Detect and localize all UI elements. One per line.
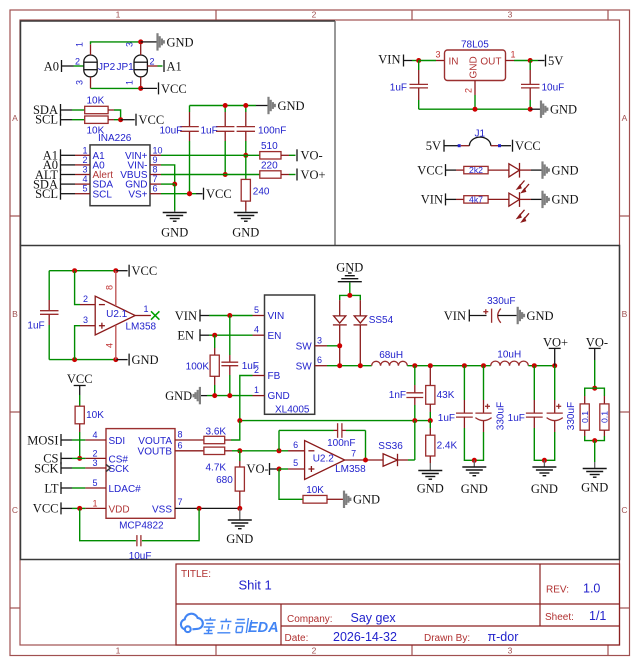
frame row tick right 1 bbox=[620, 215, 630, 217]
svg-text:2: 2 bbox=[254, 365, 259, 375]
wire to GND flag top bbox=[141, 41, 157, 43]
svg-text:4: 4 bbox=[105, 343, 115, 348]
svg-text:1uF: 1uF bbox=[27, 320, 44, 331]
LED1 cathode bar bbox=[519, 163, 521, 178]
title block vertical separator logo/company bbox=[280, 604, 282, 645]
junction pullups to VCC bbox=[118, 117, 123, 122]
ground flag GND decoupling bbox=[269, 97, 275, 114]
ground flag GND gain bbox=[344, 491, 350, 508]
svg-text:GND: GND bbox=[268, 391, 290, 402]
svg-text:VS+: VS+ bbox=[128, 189, 147, 200]
C3 bottom stub bbox=[48, 314, 50, 325]
svg-text:MOSI: MOSI bbox=[27, 433, 58, 447]
diode D2 SS54 right anode wire bbox=[359, 300, 361, 316]
junction 100K GND bbox=[212, 393, 217, 398]
svg-text:VO-: VO- bbox=[301, 149, 323, 163]
svg-text:VIN: VIN bbox=[421, 193, 443, 207]
capacitor C 330uF out1 top stub bbox=[483, 366, 485, 400]
svg-text:240: 240 bbox=[253, 186, 270, 197]
junction out2 gnd bbox=[542, 458, 547, 463]
earth ground below shunt bbox=[594, 462, 596, 468]
svg-text:680: 680 bbox=[216, 475, 233, 486]
svg-text:5: 5 bbox=[254, 305, 259, 315]
wire J1 to VCC bbox=[501, 145, 511, 147]
svg-text:J1: J1 bbox=[475, 128, 486, 139]
C 330uF out2 plus sign bbox=[556, 404, 561, 409]
svg-text:9: 9 bbox=[153, 155, 158, 165]
resistor R 10K gain bbox=[303, 495, 327, 503]
junction VS+ VCC bbox=[187, 191, 192, 196]
C1 bottom stub bbox=[418, 88, 420, 100]
bypass capacitor C 10uF wires bbox=[80, 508, 136, 540]
svg-text:SCL: SCL bbox=[35, 113, 58, 127]
svg-text:0.1: 0.1 bbox=[580, 411, 590, 423]
U1 pin 7 stub bbox=[150, 183, 161, 185]
jumper J1 arc bbox=[461, 145, 470, 147]
svg-text:VIN: VIN bbox=[444, 309, 466, 323]
title block outline bbox=[176, 564, 620, 645]
svg-text:7: 7 bbox=[351, 448, 356, 458]
wire JP2 pin3 to VCC net bottom bbox=[91, 87, 141, 89]
capacitor C 1uF out2 plates bbox=[526, 413, 543, 417]
U2.1 plus sign bbox=[99, 323, 105, 329]
JP2 pin3 stub bbox=[90, 77, 92, 89]
capacitor C 1uF out2 top stub bbox=[533, 366, 535, 400]
U3 pin 1 wire to 5V bbox=[506, 60, 515, 62]
lead to GND flag U2.1 bbox=[116, 359, 128, 361]
frame row tick left 3 bbox=[10, 607, 20, 609]
lead to VCC flag U2.1 bbox=[116, 270, 128, 272]
junction 330uF out1 bbox=[481, 363, 486, 368]
ground flag GND regulator bbox=[541, 101, 547, 118]
resistor R 10K pullup CS bbox=[75, 406, 84, 424]
capacitor C1 1uF plates bbox=[410, 84, 429, 88]
LED2 emission arrows bbox=[517, 210, 529, 222]
svg-text:EN: EN bbox=[268, 331, 282, 342]
earth ground below 2.4K bbox=[429, 463, 431, 470]
junction shunt top bbox=[592, 386, 597, 391]
junction 1nF FB bbox=[412, 418, 417, 423]
C2 bottom stub bbox=[529, 88, 531, 100]
frame row tick left 2 bbox=[10, 411, 20, 413]
wire VIN to 78L05 pin3 bbox=[404, 60, 413, 62]
svg-text:SW: SW bbox=[296, 361, 313, 372]
C 330uF bulk plus sign bbox=[483, 309, 488, 314]
jumper JP1 bbox=[134, 55, 147, 77]
svg-text:5V: 5V bbox=[426, 139, 441, 153]
title block line under company row bbox=[281, 625, 620, 627]
junction 1uF GND bbox=[227, 393, 232, 398]
no-connect X on U2.1 output bbox=[151, 311, 159, 319]
resistor R 2k2 bbox=[464, 166, 488, 173]
svg-text:1/1: 1/1 bbox=[589, 609, 606, 623]
svg-text:1: 1 bbox=[254, 385, 259, 395]
section box 1 (INA226 area) top and left edges bbox=[21, 21, 336, 246]
svg-text:JP2: JP2 bbox=[98, 62, 116, 73]
diode D2 SS54 triangle bbox=[354, 316, 366, 323]
wire 10K down to CS net bbox=[79, 424, 81, 432]
svg-text:GND: GND bbox=[161, 226, 188, 240]
svg-text:VCC: VCC bbox=[33, 502, 59, 516]
svg-text:330uF: 330uF bbox=[566, 402, 577, 430]
capacitor C 1uF plates bbox=[216, 127, 234, 132]
C 1uF out2 bottom stub bbox=[533, 417, 535, 428]
svg-text:330uF: 330uF bbox=[487, 296, 515, 307]
svg-text:π-dor: π-dor bbox=[488, 630, 519, 644]
earth ground below 680 bbox=[239, 508, 241, 519]
capacitor C 1uF en plates bbox=[221, 362, 238, 366]
capacitor C 1nF top stub bbox=[414, 366, 416, 385]
resistor R 0.1 right body bbox=[600, 404, 609, 430]
svg-text:78L05: 78L05 bbox=[461, 40, 489, 51]
svg-text:330uF: 330uF bbox=[496, 402, 507, 430]
svg-text:Date:: Date: bbox=[285, 633, 309, 644]
wire 220 to VO+ flag bbox=[281, 174, 289, 176]
LED LED2 triangle bbox=[509, 193, 520, 206]
lead to GND tag bbox=[256, 105, 268, 107]
svg-text:JP1: JP1 bbox=[117, 62, 135, 73]
wire pin7 to GND column bbox=[161, 183, 175, 185]
capacitor C 100nF plates bbox=[237, 127, 255, 132]
junction VIN 1uF bbox=[227, 313, 232, 318]
wire JP1 pin2 to A1 bbox=[147, 65, 157, 67]
svg-text:VCC: VCC bbox=[67, 372, 93, 386]
svg-text:8: 8 bbox=[153, 165, 158, 175]
junction 680 VOUTB bbox=[237, 448, 242, 453]
wire top of decoupling caps to GND bbox=[190, 105, 257, 107]
svg-text:OUT: OUT bbox=[480, 56, 501, 67]
junction bottom pin4 bbox=[113, 357, 118, 362]
C 330uF out2 bottom stub bbox=[554, 421, 556, 432]
resistor R 2.4K top stub bbox=[429, 421, 431, 428]
diode D1 SS54 triangle bbox=[334, 316, 346, 323]
svg-text:C: C bbox=[12, 505, 18, 515]
junction VDD bypass bbox=[77, 506, 82, 511]
svg-text:6: 6 bbox=[153, 184, 158, 194]
resistor R4 10K (SCL pullup) bbox=[85, 116, 108, 123]
wire LED1 to GND bbox=[520, 169, 532, 171]
wire VO- flag down to shunt bbox=[594, 348, 596, 360]
U2.2 minus sign bbox=[308, 450, 314, 452]
svg-text:GND: GND bbox=[469, 56, 480, 78]
junction 43K FB bbox=[428, 418, 433, 423]
svg-text:10K: 10K bbox=[86, 410, 104, 421]
svg-text:1: 1 bbox=[75, 42, 85, 47]
wire GND column down bbox=[174, 184, 176, 210]
resistor R 2.4K body bbox=[426, 435, 435, 456]
svg-text:GND: GND bbox=[165, 389, 192, 403]
wire A0 to JP2 pin2 bbox=[62, 65, 74, 67]
junction VSS bypass bbox=[197, 506, 202, 511]
svg-text:6: 6 bbox=[317, 355, 322, 365]
svg-text:43K: 43K bbox=[437, 390, 455, 401]
wire VIN- pin9 down to GND column bbox=[161, 165, 175, 184]
capacitor C 1uF top stub bbox=[224, 106, 226, 113]
wire VOUTB to U2.2 pin6 bbox=[240, 450, 288, 452]
svg-text:5: 5 bbox=[293, 458, 298, 468]
svg-text:FB: FB bbox=[268, 371, 281, 382]
lead to GND flag XL4005 bbox=[201, 395, 207, 397]
ground earth symbol right bbox=[245, 211, 247, 213]
U2.1 pin8 wire bbox=[115, 271, 117, 306]
junction VIN C1 bbox=[416, 58, 421, 63]
svg-text:2: 2 bbox=[312, 10, 317, 20]
wire SCL to R4 bbox=[61, 119, 73, 121]
U2.1 pin4 wire bbox=[115, 325, 117, 359]
lead to GND tag regulator bbox=[530, 108, 540, 110]
svg-text:4: 4 bbox=[92, 430, 97, 440]
D2 cathode bar bbox=[354, 324, 368, 326]
svg-text:1: 1 bbox=[144, 304, 149, 314]
junction JP tops bbox=[138, 39, 143, 44]
svg-text:5: 5 bbox=[82, 184, 87, 194]
U4 GND pin1 wire bbox=[253, 395, 265, 397]
svg-text:GND: GND bbox=[278, 99, 305, 113]
R 100K bottom stub bbox=[214, 376, 216, 385]
wire to VCC flag bbox=[141, 87, 157, 89]
wire JP2 pin1 to GND net top bbox=[91, 42, 141, 44]
junction top pin2 column bbox=[72, 268, 77, 273]
capacitor C2 10uF stubs bbox=[529, 61, 531, 71]
svg-text:3: 3 bbox=[92, 458, 97, 468]
svg-text:3: 3 bbox=[83, 315, 88, 325]
svg-text:VIN: VIN bbox=[175, 309, 197, 323]
output wire after L2 bbox=[528, 365, 554, 367]
ground flag GND LED1 bbox=[543, 161, 549, 178]
svg-text:1uF: 1uF bbox=[508, 413, 525, 424]
svg-text:VSS: VSS bbox=[152, 504, 172, 515]
capacitor C 10uF bottom stub to VS+ net bbox=[189, 131, 191, 141]
svg-text:6: 6 bbox=[293, 440, 298, 450]
junction feedback output bbox=[363, 458, 368, 463]
resistor R 4k7 bbox=[464, 196, 488, 203]
svg-text:10K: 10K bbox=[306, 485, 324, 496]
svg-text:GND: GND bbox=[232, 226, 259, 240]
capacitor C 1uF en stub bbox=[229, 316, 231, 356]
wire VIN+ net pin10 to R 510 bbox=[161, 154, 260, 156]
svg-text:VCC: VCC bbox=[206, 187, 232, 201]
wire R4 right to junction bbox=[108, 119, 114, 121]
capacitor C 10uF bypass plates bbox=[137, 535, 141, 546]
capacitor C 100nF fb plates bbox=[338, 423, 342, 438]
U2.1 supply bottom wire bbox=[49, 359, 116, 361]
lead to VCC flag bbox=[196, 193, 203, 195]
svg-text:3: 3 bbox=[435, 50, 440, 60]
svg-text:SS36: SS36 bbox=[378, 441, 403, 452]
svg-text:VDD: VDD bbox=[109, 504, 130, 515]
svg-text:10K: 10K bbox=[87, 96, 105, 107]
svg-text:1: 1 bbox=[511, 50, 516, 60]
svg-text:4k7: 4k7 bbox=[469, 195, 483, 205]
D2 cathode wire bbox=[359, 325, 361, 366]
JP2 pin1 stub bbox=[90, 44, 92, 55]
D1 cathode wire to SW bbox=[339, 325, 341, 366]
svg-text:GND: GND bbox=[461, 482, 488, 496]
inductor L1 68uH bbox=[372, 361, 408, 365]
U2.1 minus sign bbox=[99, 304, 105, 306]
JP1 pin3 stub top bbox=[140, 44, 142, 55]
frame column tick top 2 bbox=[411, 10, 413, 20]
svg-text:IN: IN bbox=[449, 56, 459, 67]
svg-text:1nF: 1nF bbox=[389, 390, 406, 401]
resistor R 100K stub top bbox=[214, 335, 216, 348]
frame column tick bottom 1 bbox=[215, 645, 217, 656]
svg-text:1: 1 bbox=[116, 10, 121, 20]
wire 1nF column to SS36 output bbox=[414, 421, 416, 460]
wire 5V to J1 bbox=[444, 145, 458, 147]
wire SCK to U5 pin 3 bbox=[61, 467, 72, 469]
svg-text:2: 2 bbox=[464, 88, 474, 93]
svg-text:Say gex: Say gex bbox=[351, 611, 397, 625]
svg-text:VO+: VO+ bbox=[543, 335, 568, 349]
svg-text:SCK: SCK bbox=[34, 461, 58, 475]
ground flag GND LED2 bbox=[543, 191, 549, 208]
svg-text:10uF: 10uF bbox=[542, 82, 565, 93]
JP1 pin1 stub bottom bbox=[140, 77, 142, 89]
svg-text:100K: 100K bbox=[186, 361, 210, 372]
svg-text:1uF: 1uF bbox=[438, 413, 455, 424]
svg-text:100nF: 100nF bbox=[258, 125, 286, 136]
wire EN to XL4005 pin4 bbox=[200, 334, 209, 336]
wire VCC flag to R 10K bbox=[79, 386, 81, 396]
wire ALT to pin 3 bbox=[61, 174, 76, 176]
svg-text:3: 3 bbox=[508, 10, 513, 20]
wire SDA to pin 4 bbox=[61, 183, 76, 185]
capacitor C3 1uF plates bbox=[40, 311, 59, 315]
svg-text:XL4005: XL4005 bbox=[275, 404, 310, 415]
svg-text:2: 2 bbox=[92, 448, 97, 458]
svg-text:LM358: LM358 bbox=[335, 464, 366, 475]
svg-text:1uF: 1uF bbox=[201, 125, 218, 136]
svg-text:A1: A1 bbox=[167, 59, 182, 73]
resistor R 680 body bbox=[235, 467, 244, 491]
svg-text:LT: LT bbox=[44, 481, 58, 495]
SW output wire after L1 bbox=[407, 365, 490, 367]
wire to regulator IN bbox=[419, 60, 436, 62]
resistor R 43K body bbox=[426, 386, 435, 405]
J1 pad right bbox=[498, 144, 501, 147]
wire SS36 to FB column bbox=[398, 459, 409, 461]
svg-text:1: 1 bbox=[92, 498, 97, 508]
svg-text:2026-14-32: 2026-14-32 bbox=[333, 630, 397, 644]
junction D2 main wire bbox=[358, 363, 363, 368]
op IC U1 INA226 body bbox=[90, 145, 150, 206]
svg-text:4.7K: 4.7K bbox=[206, 463, 227, 474]
svg-text:VCC: VCC bbox=[515, 139, 541, 153]
ground flag GND XL4005 bbox=[194, 387, 200, 404]
wire A0 to pin 2 bbox=[61, 164, 76, 166]
C 1nF bottom stub bbox=[414, 398, 416, 406]
svg-text:3: 3 bbox=[508, 646, 513, 656]
resistor R 43K top stub bbox=[429, 366, 431, 386]
svg-text:2: 2 bbox=[83, 294, 88, 304]
svg-text:1: 1 bbox=[82, 145, 87, 155]
junction JP bottoms bbox=[138, 86, 143, 91]
wire 4k7 to LED2 bbox=[488, 198, 509, 200]
svg-text:B: B bbox=[12, 309, 18, 319]
wire to 5V flag bbox=[530, 60, 538, 62]
svg-text:4: 4 bbox=[254, 325, 259, 335]
capacitor C 1uF bottom stub to VBUS net bbox=[224, 131, 226, 141]
earth ground below out2 caps bbox=[543, 460, 545, 466]
LED LED1 triangle bbox=[509, 164, 520, 177]
svg-text:10uH: 10uH bbox=[497, 349, 521, 360]
junction VO+ 330uF out2 bbox=[552, 363, 557, 368]
svg-text:510: 510 bbox=[261, 141, 278, 152]
wire LED2 to GND bbox=[520, 198, 532, 200]
svg-text:U2.1: U2.1 bbox=[106, 309, 128, 320]
U5 pin6 wire to 4.7K bbox=[175, 450, 204, 452]
svg-text:10uF: 10uF bbox=[129, 551, 152, 562]
svg-text:3: 3 bbox=[125, 42, 135, 47]
svg-text:C: C bbox=[621, 505, 627, 515]
svg-text:3: 3 bbox=[82, 165, 87, 175]
svg-text:5: 5 bbox=[92, 478, 97, 488]
resistor R3 10K (SDA pullup) bbox=[85, 106, 108, 113]
svg-text:MCP4822: MCP4822 bbox=[119, 521, 164, 532]
capacitor C 330uF out1 plates bbox=[475, 412, 491, 414]
junction 1uF out1 bbox=[462, 363, 467, 368]
svg-text:VO+: VO+ bbox=[301, 168, 326, 182]
junction reg gnd pin2 bbox=[473, 107, 478, 112]
stem earth to diode bridge bbox=[349, 283, 351, 296]
capacitor C 100nF bottom stub to VIN+ net bbox=[245, 131, 247, 141]
inductor L2 10uH bbox=[491, 361, 529, 366]
wire shunt bottom to ground bbox=[594, 441, 596, 462]
U2.2 plus sign bbox=[308, 466, 314, 472]
resistor R 0.1 left stub bbox=[584, 396, 586, 404]
svg-text:EN: EN bbox=[177, 329, 194, 343]
svg-text:GND: GND bbox=[581, 481, 608, 495]
resistor R 4.7K bbox=[204, 447, 225, 454]
wire 3.6K to FB column jog bbox=[225, 439, 231, 441]
svg-text:GND: GND bbox=[552, 193, 579, 207]
frame row tick right 2 bbox=[620, 411, 630, 413]
junction OUT C2 bbox=[528, 58, 533, 63]
junction EN 100K bbox=[212, 333, 217, 338]
ground earth symbol left bbox=[174, 211, 176, 213]
capacitor C 330uF bulk plates bbox=[491, 309, 493, 323]
U2.2 pin5 stub bbox=[279, 468, 288, 470]
svg-text:10: 10 bbox=[153, 145, 163, 155]
wire MOSI to U5 pin 4 bbox=[61, 439, 72, 441]
wire C bulk to GND tag bbox=[498, 315, 517, 317]
capacitor C3 1uF left stub top bbox=[48, 271, 50, 300]
U2.1 pin3 stub bbox=[80, 325, 95, 327]
svg-text:220: 220 bbox=[261, 160, 278, 171]
wire 510 to VO- flag bbox=[281, 154, 289, 156]
LED2 cathode bar bbox=[519, 192, 521, 207]
U4 FB pin2 wire bbox=[253, 375, 265, 377]
C 1uF en bottom stub bbox=[229, 366, 231, 375]
junction pin5 feedback divider bbox=[277, 467, 282, 472]
wire 2k2 to LED1 bbox=[488, 169, 509, 171]
svg-text:A0: A0 bbox=[44, 59, 59, 73]
svg-text:SW: SW bbox=[296, 341, 313, 352]
wire SCL to pin 5 bbox=[61, 193, 76, 195]
capacitor C 10uF top stub bbox=[189, 106, 191, 113]
U1 pin 9 stub bbox=[150, 164, 161, 166]
wire A1 to pin 1 bbox=[61, 154, 76, 156]
junction bottom pin3 column bbox=[72, 357, 77, 362]
feedback tap junction bbox=[277, 448, 282, 453]
svg-text:GND: GND bbox=[531, 482, 558, 496]
frame column tick top 3 bbox=[607, 10, 609, 20]
resistor R 0.1 left body bbox=[580, 404, 589, 430]
U5 SCK clock caret bbox=[106, 465, 111, 472]
wire VCC to U5 pin 1 bbox=[61, 507, 72, 509]
capacitor C2 10uF plates bbox=[521, 84, 540, 88]
